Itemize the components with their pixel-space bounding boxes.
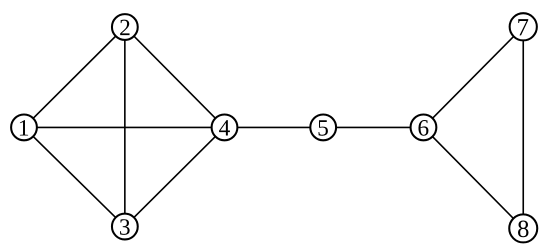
- wire: edge 1-2: [24, 27, 125, 127]
- wire: edge 1-4: [24, 126, 225, 128]
- wire: edge 2-4: [125, 27, 225, 127]
- wire: edge 4-5: [225, 126, 324, 128]
- wire: edge 7-8: [522, 27, 524, 229]
- wire: edge 6-7: [423, 27, 523, 128]
- wire: edge 2-3: [124, 27, 126, 227]
- node 2: [112, 14, 138, 40]
- wire: edge 1-3: [24, 127, 125, 226]
- node 6: [411, 115, 437, 141]
- wire: edge 6-8: [423, 127, 523, 228]
- wire: edge 3-4: [125, 127, 225, 226]
- node 3: [112, 214, 138, 240]
- node 7: [510, 13, 537, 40]
- node 1: [11, 115, 37, 141]
- wire: edge 5-6: [323, 126, 423, 128]
- node 4: [212, 115, 238, 141]
- node 8: [509, 214, 537, 242]
- node 5: [310, 115, 336, 141]
